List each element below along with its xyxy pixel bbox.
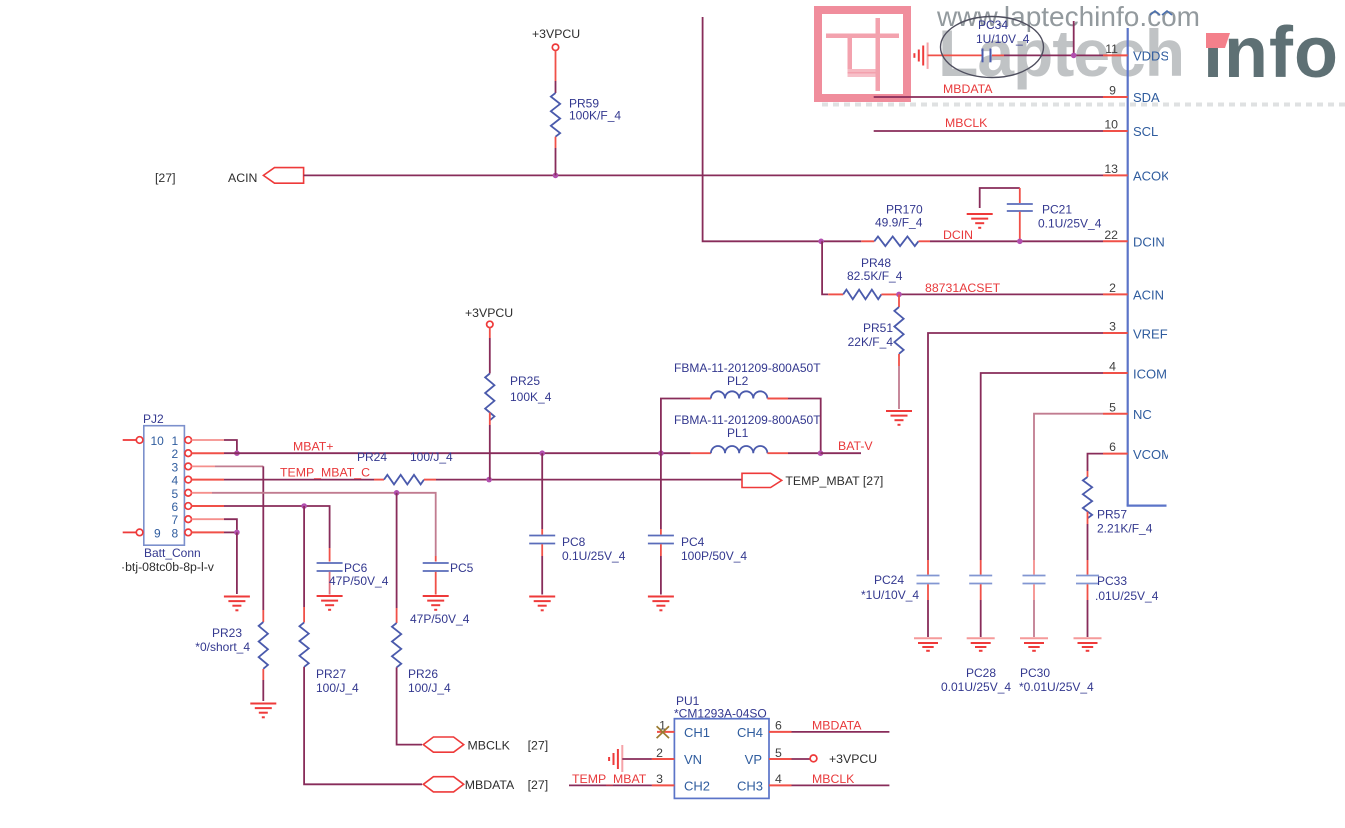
power symbol +3VPCU (PU1) [810,755,817,762]
wire vertical stub to VDDS [1073,21,1075,55]
capacitor PC6 [317,561,389,595]
svg-text:47P/50V_4: 47P/50V_4 [410,612,470,626]
svg-text:VP: VP [745,752,762,767]
svg-text:100K/F_4: 100K/F_4 [569,109,621,123]
IC U2 battery charger body border [1127,28,1167,506]
wire SDA net MBDATA [874,96,1103,98]
svg-text:10: 10 [151,434,165,448]
junction node PC8 [539,450,545,456]
svg-text:PR25: PR25 [510,374,540,388]
svg-text:PC21: PC21 [1042,203,1072,217]
watermark logo square [818,10,907,98]
junction node VDDS [1071,53,1077,59]
svg-text:PC5: PC5 [450,561,474,575]
wire CH3 MBCLK [792,784,890,786]
junction node PC4 / PL2 [658,450,664,456]
resistor PR170 [861,203,930,247]
svg-text:100/J_4: 100/J_4 [408,681,451,695]
svg-text:MBCLK: MBCLK [945,116,988,130]
wire VDDS net [928,54,1103,56]
svg-text:2: 2 [1109,281,1116,295]
svg-text:13: 13 [1104,162,1118,176]
svg-text:*1U/10V_4: *1U/10V_4 [861,588,919,602]
capacitor PC21 [1007,188,1102,241]
svg-text:VN: VN [684,752,702,767]
highlight ellipse around PC34 [941,17,1044,78]
svg-text:FBMA-11-201209-800A50T: FBMA-11-201209-800A50T [674,361,821,375]
ground PC24 [914,638,942,651]
wire +3VPCU to PR25 [489,328,491,374]
wire PR25 to TEMP_MBAT wire [489,413,491,480]
wire VCOMP net [1088,454,1104,471]
capacitor PC33 [1076,574,1159,637]
wire pins 7-8 to ground [236,532,238,594]
capacitor PC4 [648,453,747,594]
junction node pin6 / PR27 [301,503,307,509]
wire BAT-V stub [821,452,862,454]
svg-text:1: 1 [172,434,179,448]
svg-text:SCL: SCL [1133,124,1158,139]
svg-text:*0/short_4: *0/short_4 [195,640,250,654]
svg-text:22: 22 [1104,228,1118,242]
svg-text:4: 4 [1109,360,1116,374]
junction node DCIN left [818,239,824,245]
wire NC net [1034,414,1103,560]
svg-text:PC24: PC24 [874,573,904,587]
svg-text:PR23: PR23 [212,626,242,640]
resistor PR57 [1083,471,1153,536]
junction node pins 7-8 [234,530,240,536]
svg-text:0.1U/25V_4: 0.1U/25V_4 [1038,217,1102,231]
connector PJ2 body [144,426,185,546]
svg-text:1U/10V_4: 1U/10V_4 [976,32,1030,46]
svg-text:CH1: CH1 [684,725,710,740]
wire VN to ground [622,758,652,760]
wire pin8 stub [192,531,225,533]
svg-text:PR51: PR51 [863,321,893,335]
svg-text:3: 3 [656,772,663,786]
wire ICOMP net [981,373,1103,560]
svg-text:PL2: PL2 [727,374,749,388]
ground PJ2 pins 7-8 [224,597,250,611]
svg-text:0.01U/25V_4: 0.01U/25V_4 [941,680,1011,694]
svg-text:TEMP_MBAT [27]: TEMP_MBAT [27] [785,474,883,488]
ground PC33 [1074,638,1102,651]
wire SCL net MBCLK [874,130,1103,132]
svg-text:2: 2 [172,447,179,461]
wire PR59 to ACIN wire [555,137,557,176]
svg-text:*0.01U/25V_4: *0.01U/25V_4 [1019,680,1094,694]
ground (rotated) at PU1 VN [609,745,622,772]
svg-text:[27]: [27] [528,778,549,792]
svg-text:DCIN: DCIN [943,228,973,242]
junction node BAT-V [818,450,824,456]
flag TEMP_MBAT (points right) [742,473,782,487]
svg-text:CH4: CH4 [737,725,763,740]
IC PU1 pin names [684,725,763,794]
watermark info i-dot accent [1206,33,1230,48]
capacitor PC5 [410,561,474,626]
svg-text:DCIN: DCIN [1133,235,1165,250]
svg-text:3: 3 [1109,320,1116,334]
svg-text:Batt_Conn: Batt_Conn [144,546,201,560]
resistor PR59 [551,93,560,137]
inductor PL2 [690,391,788,398]
IC PU1 body [674,719,769,799]
svg-text:5: 5 [1109,400,1116,414]
svg-text:PR27: PR27 [316,667,346,681]
wire DCIN to ACSET [822,241,828,294]
svg-text:88731ACSET: 88731ACSET [925,281,1001,295]
wire vertical from top to DCIN corner [703,17,822,241]
IC PU1 pin numbers [656,719,782,787]
wire MBAT+ net [224,452,690,454]
junction node ACIN / PR59 [553,173,559,179]
svg-text:PR57: PR57 [1097,508,1127,522]
ground PC4 [648,597,674,611]
wire DCIN net [821,240,861,242]
ground PC30 [1020,638,1048,651]
flag ACIN (input, points left) [263,168,303,184]
inductor PL2 branch risers [661,399,691,454]
svg-text:100K_4: 100K_4 [510,390,552,404]
svg-text:8: 8 [172,526,179,540]
resistor PR23 [259,622,268,669]
svg-text:PR24: PR24 [357,450,387,464]
wire pin1 to MBAT junction [192,440,237,453]
svg-text:100P/50V_4: 100P/50V_4 [681,549,747,563]
svg-text:ACIN: ACIN [1133,288,1164,303]
connector PJ2 pin circles right [185,437,192,536]
svg-text:0.1U/25V_4: 0.1U/25V_4 [562,549,626,563]
svg-text:PC4: PC4 [681,535,705,549]
svg-text:4: 4 [775,772,782,786]
svg-text:3: 3 [172,460,179,474]
svg-text:MBDATA: MBDATA [812,719,862,733]
resistor PR26 [392,493,451,695]
svg-text:+3VPCU: +3VPCU [465,306,513,320]
svg-text:100/J_4: 100/J_4 [410,450,453,464]
svg-text:49.9/F_4: 49.9/F_4 [875,216,923,230]
capacitor PC28 [941,576,1011,695]
svg-text:PJ2: PJ2 [143,412,164,426]
junction node PR25 / TEMP_MBAT [486,477,492,483]
junction node pins 1-2 [234,450,240,456]
wire pin4 TEMP_MBAT_C [192,479,225,481]
svg-text:ACIN: ACIN [228,171,257,185]
wire PR51 to ground [898,354,900,409]
svg-text:MBCLK: MBCLK [468,739,511,753]
svg-text:PC6: PC6 [344,561,368,575]
wire VREF net [928,333,1103,560]
capacitor PC34 plates [983,49,991,63]
wire CH4 MBDATA [792,731,890,733]
svg-text:MBDATA: MBDATA [465,778,515,792]
svg-text:VDDS: VDDS [1133,49,1169,64]
svg-text:PL1: PL1 [727,426,749,440]
wire VP to +3VPCU [792,758,811,760]
junction node ACSET / PR51 [896,292,902,298]
svg-text:PC8: PC8 [562,535,586,549]
resistor PR25 [485,374,494,421]
svg-text:PC28: PC28 [966,666,996,680]
wire pin6 row [192,506,330,562]
svg-text:10: 10 [1104,118,1118,132]
svg-text:82.5K/F_4: 82.5K/F_4 [847,269,903,283]
svg-text:PR26: PR26 [408,667,438,681]
ground PC5 [423,596,449,610]
svg-text:22K/F_4: 22K/F_4 [848,335,894,349]
wire PR26 to MBCLK hexagon [397,667,422,744]
svg-text:PR170: PR170 [886,203,923,217]
wire PR24 to flag TEMP_MBAT [436,479,742,481]
wire PR23 to ground [262,669,264,701]
wire pin2 stub [192,452,225,454]
svg-text:2.21K/F_4: 2.21K/F_4 [1097,522,1153,536]
no-connect X on PU1 pin 1 [657,726,669,738]
wire +3VPCU to PR59 [555,51,557,94]
ground PR23 [250,704,276,718]
svg-text:5: 5 [775,746,782,760]
watermark faint dotted strip [822,103,1345,107]
resistor PR51 [848,294,904,353]
svg-text:6: 6 [775,719,782,733]
wire ACOK net ACIN [304,174,1103,176]
svg-text:MBCLK: MBCLK [812,772,855,786]
svg-text:47P/50V_4: 47P/50V_4 [329,574,389,588]
svg-text:[27]: [27] [528,739,549,753]
svg-text:9: 9 [154,526,161,540]
svg-text:ACOK: ACOK [1133,169,1170,184]
svg-text:TEMP_MBAT_C: TEMP_MBAT_C [280,466,370,480]
decorative blue check mark top right [1150,11,1172,15]
IC U2 pin names [1133,49,1181,463]
svg-text:NC: NC [1133,407,1152,422]
ground PR51 [886,411,912,425]
svg-text:+3VPCU: +3VPCU [532,27,580,41]
svg-text:ICOMP: ICOMP [1133,367,1176,382]
junction node PC21 / DCIN [1017,239,1023,245]
svg-text:MBDATA: MBDATA [943,82,993,96]
junction node pin5 / PR26 [394,490,400,496]
IC U2 pin stubs [1103,55,1128,453]
wire pin3 to PR23 [192,466,264,622]
connector PJ2 left pin 9 stub [123,531,137,533]
svg-text:TEMP_MBAT: TEMP_MBAT [572,772,647,786]
svg-text:6: 6 [1109,440,1116,454]
wire PR57 to PC33 [1087,524,1089,560]
capacitor PC24 [861,573,940,637]
svg-text:CH2: CH2 [684,779,710,794]
svg-text:MBAT+: MBAT+ [293,440,333,454]
svg-text:6: 6 [172,500,179,514]
wire TEMP_MBAT to CH2 [569,784,652,786]
svg-text:11: 11 [1105,42,1118,56]
svg-text:BAT-V: BAT-V [838,439,873,453]
connector PJ2 inner pin numbers [151,434,179,540]
svg-text:ınfo: ınfo [1203,13,1339,93]
resistor PR24 [357,450,453,484]
IC U2 pin numbers [1104,42,1118,454]
hexagon flag MBDATA [423,777,463,792]
inductor PL1 [690,446,820,453]
svg-text:4: 4 [172,474,179,488]
svg-text:PR48: PR48 [861,256,891,270]
resistor PR48 [828,256,902,299]
wire PR27 to MBDATA hexagon [304,667,422,784]
ground PC8 [529,597,555,611]
svg-text:9: 9 [1109,84,1116,98]
svg-text:·btj-08tc0b-8p-l-v: ·btj-08tc0b-8p-l-v [121,560,215,574]
connector PJ2 left pin 10 stub [123,439,137,441]
wire 88731ACSET net [899,293,1103,295]
svg-text:CH3: CH3 [737,779,763,794]
hexagon flag MBCLK [423,737,463,752]
svg-text:SDA: SDA [1133,90,1160,105]
svg-text:PC30: PC30 [1020,666,1050,680]
svg-text:PC33: PC33 [1097,574,1127,588]
capacitor PC8 [529,453,626,594]
svg-text:VCOMP: VCOMP [1133,447,1181,462]
svg-text:FBMA-11-201209-800A50T: FBMA-11-201209-800A50T [674,413,821,427]
svg-text:5: 5 [172,487,179,501]
ground PC28 [967,638,995,651]
svg-text:[27]: [27] [155,171,176,185]
svg-text:+3VPCU: +3VPCU [829,752,877,766]
svg-text:.01U/25V_4: .01U/25V_4 [1095,589,1159,603]
svg-text:VREF: VREF [1133,327,1168,342]
ground (rotated) at PC34 [914,43,927,69]
resistor PR27 [299,506,359,695]
svg-text:100/J_4: 100/J_4 [316,681,359,695]
svg-text:7: 7 [172,513,179,527]
wire pin5 row [192,493,436,562]
wire pin7 to pin8 junction [192,519,237,532]
IC PU1 pin stubs [652,732,792,786]
svg-text:2: 2 [656,746,663,760]
ground at PC21 [967,188,1020,228]
svg-text:PC34: PC34 [978,18,1008,32]
capacitor PC30 [1019,576,1094,695]
ground PC6 [317,596,343,610]
